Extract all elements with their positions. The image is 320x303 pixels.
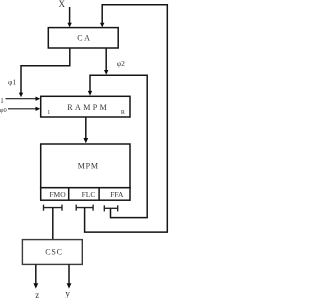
svg-text:CA: CA (77, 33, 91, 42)
wire phi2 from CA (105, 48, 107, 70)
block CSC (22, 240, 82, 265)
svg-text:1: 1 (0, 97, 4, 105)
wire feedback top (FLC output to CA) (85, 5, 168, 232)
wire FFA feedback to RAMPM (horizontal bus y=75) (90, 75, 147, 217)
divider FMO|FLC (68, 188, 70, 201)
wire FMO to CSC (52, 208, 54, 240)
block row FMO FLC FFA (41, 188, 130, 201)
svg-text:FMO: FMO (49, 190, 66, 199)
wire output z (35, 264, 37, 283)
svg-text:FLC: FLC (82, 190, 96, 199)
svg-text:CSC: CSC (45, 247, 63, 256)
svg-text:φ1: φ1 (8, 78, 16, 87)
svg-text:R: R (121, 110, 125, 116)
divider FLC|FFA (98, 188, 100, 201)
svg-text:φ0: φ0 (0, 107, 7, 114)
wire phi1 from CA (21, 48, 70, 93)
svg-text:1: 1 (47, 110, 50, 116)
bus bar under FFA (104, 205, 117, 211)
wire X input (69, 7, 71, 24)
svg-text:MPM: MPM (78, 161, 99, 170)
block MPM (41, 144, 130, 188)
bus bar under FLC (76, 205, 93, 211)
svg-text:z: z (35, 290, 39, 298)
svg-text:φ2: φ2 (117, 59, 125, 68)
wire RAMPM to MPM (85, 117, 87, 139)
bus bar under FMO (44, 205, 63, 211)
block RAMPM (41, 96, 130, 117)
svg-text:FFA: FFA (110, 190, 124, 199)
wire input 1 into RAMPM (6, 98, 37, 100)
svg-text:RAMPM: RAMPM (67, 103, 109, 112)
wire output y (68, 264, 70, 283)
block CA (48, 28, 118, 48)
svg-text:X: X (59, 0, 66, 9)
svg-text:y: y (65, 288, 70, 298)
wire input phi0 into RAMPM (8, 108, 36, 110)
